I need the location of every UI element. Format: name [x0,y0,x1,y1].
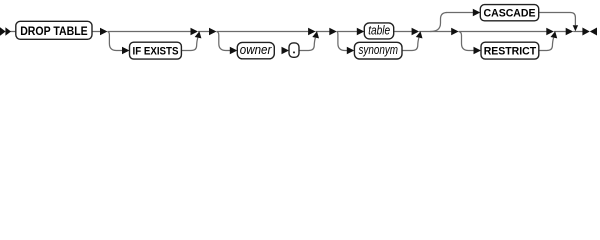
arrow before owner split [209,28,217,35]
svg-text:IF EXISTS: IF EXISTS [133,45,179,57]
variable box table [364,23,393,39]
wire DROP TABLE to arrow at IF EXISTS split [92,31,100,33]
arrow before end bowtie [566,28,574,35]
arrow end of middle skip line [546,28,554,35]
arrow into synonym [347,47,355,54]
wire to pre-end arrow [554,31,566,33]
arrow CASCADE merge down [573,25,578,31]
start terminator arrow 2 [5,27,11,35]
svg-text:owner: owner [240,43,272,57]
keyword box CASCADE [480,5,538,21]
arrow into CASCADE [473,9,481,16]
arrow after DROP TABLE [100,28,108,35]
arrow into table [357,28,365,35]
wire IF EXISTS split curve down [108,32,123,51]
keyword box IF EXISTS [130,42,182,59]
wire CASCADE box to merge corner [539,12,571,14]
arrow main line at IF EXISTS merge [191,28,199,35]
wire IF EXISTS merge curve up [181,38,197,51]
wire synonym split to table arrow [337,31,358,33]
arrow synonym merge up [416,31,423,38]
wire middle skip line [459,31,547,33]
arrow into RESTRICT [474,47,482,54]
arrow IF EXISTS merge up [195,31,202,38]
wire RESTRICT merge curve up [539,38,554,51]
keyword box DROP TABLE [16,21,92,39]
wire CASCADE split curve up [430,13,447,32]
wire to synonym-split arrow [316,31,330,33]
arrow before RESTRICT split [451,28,459,35]
wire RESTRICT split curve down [459,32,474,51]
wire start to DROP TABLE [11,31,16,33]
svg-text:CASCADE: CASCADE [484,8,536,20]
wire merge to RESTRICT-split arrow, under CASCADE split [419,31,451,33]
svg-text:synonym: synonym [359,43,399,57]
svg-text:table: table [368,24,390,38]
svg-text:RESTRICT: RESTRICT [484,45,537,57]
arrow into owner [230,47,238,54]
arrow before synonym split [329,28,337,35]
variable box synonym [354,42,402,59]
arrow RESTRICT merge up [551,31,558,38]
wire table box to merge arrow [394,31,412,33]
arrow into IF EXISTS [122,47,130,54]
wire main line over IF EXISTS [108,31,191,33]
arrow dot merge up [312,31,319,38]
punctuation box . [289,43,299,57]
arrow main line at synonym merge [412,28,420,35]
start terminator arrow 1 [0,27,6,35]
end terminator bowtie right [590,28,597,36]
wire synonym split curve down [337,32,348,51]
wire CASCADE merge corner down [570,13,575,26]
wire synonym merge curve up [402,38,419,51]
wire owner split curve down [217,32,231,51]
wire dot merge curve up [299,38,315,51]
wire merge point to owner-split arrow [198,31,209,33]
wire main line over owner branch [217,31,309,33]
end terminator bowtie left [582,28,589,36]
wire CASCADE top line [447,12,474,14]
wire to end bowtie [573,31,582,33]
label dot [293,51,295,53]
arrow main line at dot merge [308,28,316,35]
arrow owner to dot box [282,47,290,54]
keyword box RESTRICT [481,42,539,59]
variable box owner [237,42,274,58]
svg-text:DROP TABLE: DROP TABLE [20,24,88,38]
